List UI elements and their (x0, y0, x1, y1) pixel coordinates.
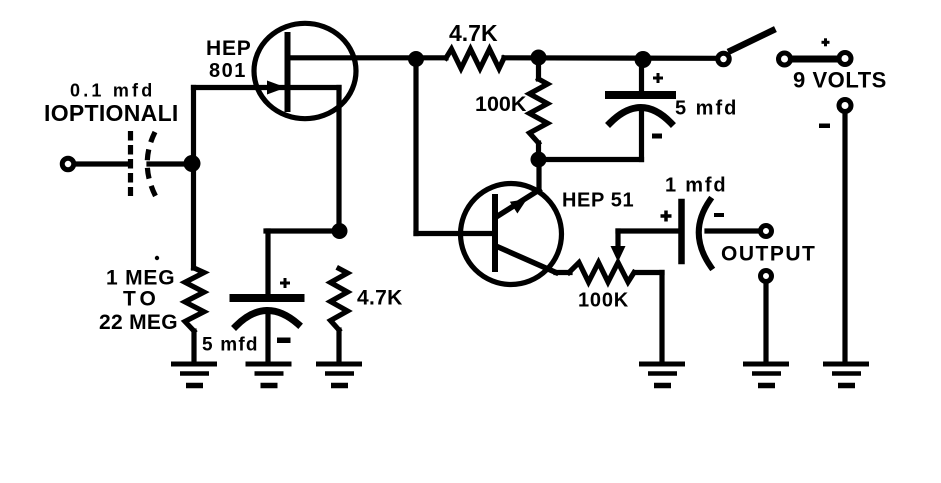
svg-text:801: 801 (209, 60, 247, 82)
svg-text:1 MEG: 1 MEG (106, 267, 175, 290)
svg-text:HEP: HEP (206, 37, 252, 60)
svg-text:0.1 mfd: 0.1 mfd (70, 81, 155, 101)
svg-text:22 MEG: 22 MEG (99, 311, 178, 334)
svg-text:100K: 100K (578, 290, 629, 312)
svg-text:1 mfd: 1 mfd (665, 175, 727, 197)
svg-text:IOPTIONALI: IOPTIONALI (44, 100, 179, 126)
svg-text:HEP 51: HEP 51 (562, 190, 634, 212)
svg-text:TO: TO (123, 288, 160, 311)
svg-text:5 mfd: 5 mfd (675, 98, 738, 120)
svg-text:OUTPUT: OUTPUT (721, 243, 816, 266)
svg-text:9 VOLTS: 9 VOLTS (793, 68, 887, 93)
svg-text:4.7K: 4.7K (357, 287, 403, 310)
svg-text:5 mfd: 5 mfd (202, 335, 259, 356)
svg-text:100K: 100K (475, 92, 527, 116)
svg-text:4.7K: 4.7K (449, 20, 498, 46)
